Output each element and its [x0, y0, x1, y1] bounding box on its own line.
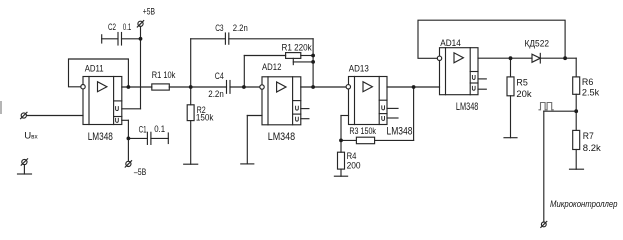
- svg-text:R5: R5: [516, 77, 527, 88]
- svg-text:C1: C1: [139, 124, 147, 135]
- svg-text:C2: C2: [108, 22, 116, 33]
- svg-text:КД522: КД522: [525, 38, 550, 49]
- svg-text:200: 200: [347, 160, 361, 171]
- svg-text:–5В: –5В: [134, 167, 146, 178]
- svg-text:C3: C3: [215, 23, 223, 34]
- svg-text:8.2k: 8.2k: [583, 143, 601, 154]
- svg-text:0.1: 0.1: [123, 22, 131, 33]
- svg-text:AD12: AD12: [262, 62, 281, 73]
- svg-text:AD11: AD11: [85, 64, 104, 75]
- svg-text:R3 150k: R3 150k: [349, 126, 376, 137]
- svg-text:20k: 20k: [516, 89, 531, 100]
- svg-text:2.5k: 2.5k: [582, 88, 599, 99]
- svg-text:C4: C4: [215, 71, 224, 82]
- svg-text:AD14: AD14: [440, 38, 461, 49]
- svg-text:LM348: LM348: [88, 131, 113, 143]
- svg-text:150k: 150k: [196, 113, 214, 124]
- svg-text:R1 220k: R1 220k: [282, 43, 312, 54]
- svg-text:AD13: AD13: [349, 64, 369, 75]
- svg-text:LM348: LM348: [268, 131, 296, 143]
- svg-text:R6: R6: [582, 77, 593, 88]
- svg-text:2.2n: 2.2n: [233, 23, 248, 34]
- svg-text:2.2n: 2.2n: [208, 89, 224, 100]
- svg-text:R1 10k: R1 10k: [152, 70, 176, 81]
- svg-text:R7: R7: [583, 131, 594, 142]
- svg-text:LM348: LM348: [387, 126, 413, 138]
- svg-text:Микроконтроллер: Микроконтроллер: [550, 198, 618, 209]
- svg-text:+5В: +5В: [143, 6, 155, 17]
- svg-text:LM348: LM348: [456, 101, 479, 113]
- svg-text:0.1: 0.1: [154, 124, 165, 135]
